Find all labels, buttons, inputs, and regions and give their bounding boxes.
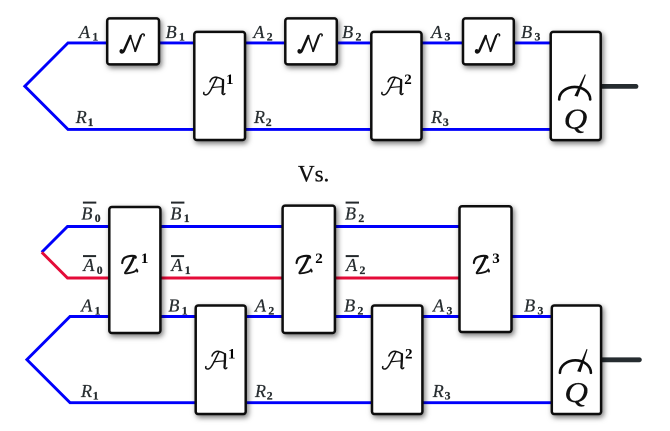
- svg-text:R2: R2: [254, 381, 273, 403]
- svg-text:A3: A3: [432, 296, 452, 318]
- svg-text:R3: R3: [430, 107, 449, 129]
- svg-text:2: 2: [315, 251, 323, 267]
- svg-text:A2: A2: [252, 22, 272, 44]
- svg-text:1: 1: [226, 72, 234, 88]
- svg-text:B3: B3: [521, 22, 540, 44]
- svg-text:R3: R3: [432, 381, 451, 403]
- svg-text:A2: A2: [345, 255, 365, 277]
- svg-text:1: 1: [228, 346, 236, 362]
- svg-text:A3: A3: [430, 22, 450, 44]
- svg-text:B3: B3: [524, 296, 543, 318]
- svg-text:B0: B0: [81, 204, 100, 226]
- svg-text:1: 1: [141, 251, 149, 267]
- svg-text:B2: B2: [342, 22, 361, 44]
- svg-text:A0: A0: [82, 255, 102, 277]
- svg-text:2: 2: [404, 72, 412, 88]
- svg-text:Q: Q: [564, 104, 588, 135]
- svg-text:2: 2: [405, 346, 413, 362]
- svg-text:Vs.: Vs.: [298, 162, 329, 187]
- svg-text:R1: R1: [80, 381, 99, 403]
- svg-text:3: 3: [492, 251, 500, 267]
- svg-text:Q: Q: [565, 378, 589, 409]
- svg-text:A1: A1: [80, 296, 100, 318]
- svg-text:B2: B2: [345, 204, 364, 226]
- svg-text:A2: A2: [254, 296, 274, 318]
- svg-text:R2: R2: [253, 107, 272, 129]
- svg-text:R1: R1: [75, 107, 94, 129]
- svg-text:A1: A1: [78, 22, 98, 44]
- svg-text:A1: A1: [170, 255, 190, 277]
- svg-text:B1: B1: [168, 296, 187, 318]
- svg-text:B2: B2: [344, 296, 363, 318]
- svg-text:B1: B1: [166, 22, 185, 44]
- svg-text:B1: B1: [170, 204, 189, 226]
